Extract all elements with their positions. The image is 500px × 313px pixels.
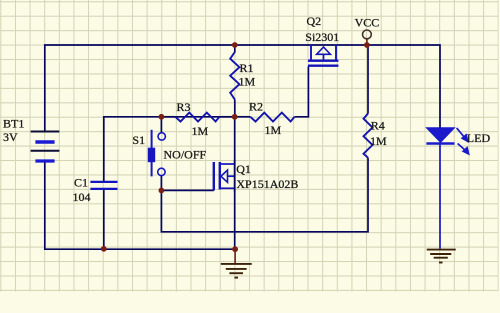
svg-text:BT1: BT1 bbox=[3, 117, 24, 131]
ground (left, bottom rail) bbox=[221, 249, 252, 277]
LED bbox=[426, 128, 468, 154]
transistor Q1 (N-MOSFET) bbox=[214, 162, 235, 191]
junction node: C1 bottom on ground rail bbox=[101, 246, 107, 252]
wire battery negative to bottom ground rail bbox=[45, 162, 235, 249]
wire S1 bottom stub to node gate junction bbox=[160, 176, 162, 191]
battery BT1 bbox=[31, 132, 60, 162]
wire VCC junction down to R4 top bbox=[367, 45, 369, 114]
wire R1 top pin stub bbox=[234, 45, 236, 53]
svg-text:1M: 1M bbox=[370, 134, 387, 148]
svg-text:3V: 3V bbox=[3, 130, 18, 144]
wire R3 right pin bbox=[219, 116, 234, 118]
wire R1 bottom pin stub bbox=[234, 100, 236, 117]
wire R2 right end up to Q2 gate bbox=[295, 67, 309, 117]
svg-text:Q2: Q2 bbox=[307, 14, 322, 28]
svg-text:Q1: Q1 bbox=[236, 162, 251, 176]
wire S1 top stub bbox=[160, 117, 162, 133]
junction node: ground rail / Q1 source / ground symbol bbox=[232, 246, 238, 252]
power port VCC bbox=[363, 30, 372, 45]
resistor R2 bbox=[250, 113, 294, 122]
wire Q1 gate horizontal bbox=[161, 189, 213, 191]
resistor R3 bbox=[175, 113, 219, 122]
svg-text:NO/OFF: NO/OFF bbox=[164, 147, 207, 161]
svg-text:1M: 1M bbox=[239, 74, 256, 88]
wire Q1 vertical overlay bbox=[234, 160, 236, 192]
wire C1 bottom to ground rail bbox=[103, 190, 105, 250]
svg-text:S1: S1 bbox=[132, 133, 145, 147]
svg-text:R3: R3 bbox=[177, 100, 191, 114]
junction node: top rail / VCC bbox=[364, 42, 370, 48]
wire top rail (BT1+ to Q2 to VCC corner, down to LED anode) bbox=[45, 45, 440, 131]
svg-text:R1: R1 bbox=[240, 61, 254, 75]
resistor R4 bbox=[364, 114, 373, 158]
svg-text:C1: C1 bbox=[74, 176, 88, 190]
junction node: top rail / R1 top bbox=[232, 42, 238, 48]
svg-text:R4: R4 bbox=[371, 119, 385, 133]
wire R2 left pin bbox=[235, 116, 251, 118]
wire gate junction down, right and up to R4 bottom bbox=[161, 158, 368, 232]
svg-text:Si2301: Si2301 bbox=[305, 30, 339, 44]
pushbutton switch S1 bbox=[148, 130, 166, 177]
transistor Q2 (P-MOSFET) bbox=[308, 45, 338, 66]
svg-text:R2: R2 bbox=[249, 100, 263, 114]
capacitor C1 bbox=[90, 182, 117, 189]
svg-text:VCC: VCC bbox=[355, 16, 380, 30]
junction node: R3 left / S1 top bbox=[159, 114, 165, 120]
svg-text:XP151A02B: XP151A02B bbox=[236, 177, 298, 191]
ground (right, below LED) bbox=[427, 250, 456, 263]
svg-text:104: 104 bbox=[73, 190, 91, 204]
wire R3 left pin bbox=[161, 116, 175, 118]
junction node: R1 bottom / R3 / R2 / Q1 drain bbox=[232, 114, 238, 120]
junction node: S1 bottom / Q1 gate / R4 return bbox=[159, 188, 165, 194]
resistor R1 bbox=[230, 52, 239, 100]
wire Q1 drain/source vertical (R1 junction to ground junction) bbox=[234, 117, 236, 249]
wire LED cathode down to right ground bbox=[439, 144, 441, 249]
svg-text:LED: LED bbox=[467, 131, 491, 145]
svg-text:1M: 1M bbox=[192, 124, 209, 138]
svg-text:1M: 1M bbox=[265, 123, 282, 137]
wire C1 top up and right to R3 row bbox=[104, 117, 235, 181]
